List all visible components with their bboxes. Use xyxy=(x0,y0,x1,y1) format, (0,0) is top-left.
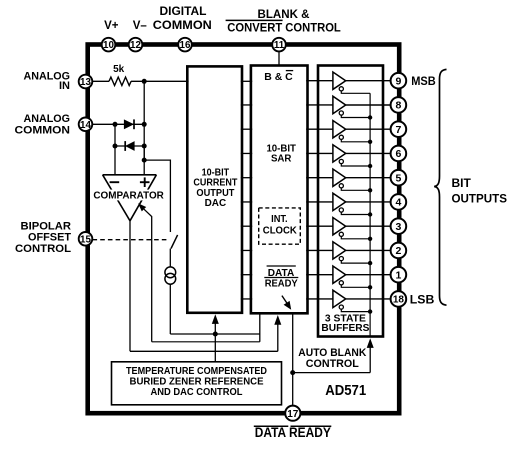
svg-text:BIT: BIT xyxy=(452,176,472,190)
svg-text:13: 13 xyxy=(80,77,91,88)
svg-text:7: 7 xyxy=(395,124,401,136)
svg-text:9: 9 xyxy=(395,76,401,88)
svg-text:DAC: DAC xyxy=(205,198,227,209)
svg-text:READY: READY xyxy=(265,279,298,290)
svg-text:18: 18 xyxy=(393,295,405,306)
svg-text:DIGITAL: DIGITAL xyxy=(160,6,207,18)
svg-text:MSB: MSB xyxy=(411,74,436,88)
svg-text:10: 10 xyxy=(103,40,114,51)
svg-text:AND DAC CONTROL: AND DAC CONTROL xyxy=(151,386,244,398)
svg-text:B & C: B & C xyxy=(264,72,293,83)
svg-text:1: 1 xyxy=(395,270,401,282)
svg-text:AD571: AD571 xyxy=(325,382,366,399)
svg-text:17: 17 xyxy=(287,409,299,420)
svg-text:15: 15 xyxy=(80,234,91,245)
svg-text:COMMON: COMMON xyxy=(15,125,71,137)
svg-text:DATA READY: DATA READY xyxy=(255,425,331,440)
svg-text:INT.: INT. xyxy=(271,214,288,225)
svg-text:BLANK &: BLANK & xyxy=(258,9,310,21)
svg-text:COMPARATOR: COMPARATOR xyxy=(93,190,164,202)
svg-text:5k: 5k xyxy=(113,64,125,75)
svg-text:OUTPUTS: OUTPUTS xyxy=(452,191,508,205)
svg-text:IN: IN xyxy=(59,80,70,92)
svg-text:5: 5 xyxy=(395,173,401,185)
svg-text:2: 2 xyxy=(395,245,401,257)
svg-text:BUFFERS: BUFFERS xyxy=(321,322,369,334)
svg-text:CLOCK: CLOCK xyxy=(263,225,298,236)
svg-text:6: 6 xyxy=(395,148,401,160)
svg-text:V+: V+ xyxy=(104,20,119,32)
svg-text:14: 14 xyxy=(80,120,91,131)
svg-text:CONVERT CONTROL: CONVERT CONTROL xyxy=(227,22,340,34)
svg-text:4: 4 xyxy=(395,197,401,209)
svg-text:8: 8 xyxy=(395,100,401,112)
svg-text:COMMON: COMMON xyxy=(153,20,212,32)
svg-text:V–: V– xyxy=(133,20,148,32)
svg-text:CONTROL: CONTROL xyxy=(15,243,71,255)
svg-text:11: 11 xyxy=(274,40,285,51)
svg-text:ANALOG: ANALOG xyxy=(24,113,71,125)
svg-text:12: 12 xyxy=(130,40,141,51)
svg-text:CONTROL: CONTROL xyxy=(306,358,359,370)
svg-text:SAR: SAR xyxy=(271,154,292,165)
svg-text:OFFSET: OFFSET xyxy=(28,232,71,244)
svg-text:LSB: LSB xyxy=(410,292,435,306)
svg-text:16: 16 xyxy=(180,40,191,51)
svg-text:3: 3 xyxy=(395,221,401,233)
